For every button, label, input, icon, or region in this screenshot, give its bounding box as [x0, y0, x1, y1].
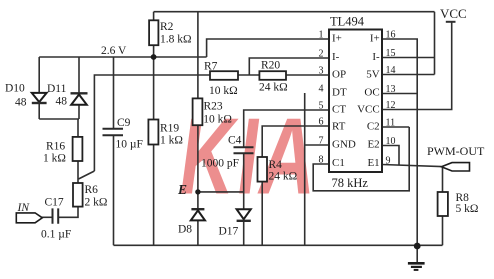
node 2.6V junction [151, 54, 157, 60]
svg-text:I: I [238, 96, 260, 218]
svg-text:R6: R6 [85, 184, 99, 196]
svg-text:10: 10 [386, 136, 396, 147]
capacitor C17 [53, 208, 59, 223]
svg-text:C17: C17 [45, 197, 64, 209]
wire pin2 feedback [249, 58, 329, 75]
wire R4 bottom [261, 182, 263, 246]
svg-text:6: 6 [319, 117, 324, 128]
svg-text:1 kΩ: 1 kΩ [43, 153, 66, 165]
svg-text:16: 16 [386, 30, 396, 41]
svg-text:48: 48 [15, 97, 27, 109]
diode D17 [237, 209, 251, 221]
diode D10 [32, 93, 47, 103]
svg-text:DT: DT [332, 87, 347, 99]
svg-text:14: 14 [386, 65, 396, 76]
ground symbol [416, 246, 418, 262]
resistor R20 [259, 71, 286, 80]
wire DT-GND ground drop [305, 93, 329, 245]
wire pin16,13 ground line [382, 39, 417, 246]
svg-text:1 kΩ: 1 kΩ [160, 135, 183, 147]
svg-text:0.1 µF: 0.1 µF [41, 229, 71, 241]
svg-text:R23: R23 [204, 101, 223, 113]
wire pin1 jog [207, 39, 329, 57]
wire pin10 to pin9 [382, 146, 399, 166]
wire C1-C2 tie [313, 127, 409, 191]
wire E branch R23-D8 [197, 12, 199, 246]
svg-text:RT: RT [332, 121, 346, 133]
svg-text:11: 11 [386, 118, 396, 129]
svg-text:PWM-OUT: PWM-OUT [427, 144, 485, 158]
svg-text:IN: IN [17, 202, 31, 214]
terminal IN arrow [16, 213, 42, 223]
resistor R8 [438, 192, 448, 216]
svg-text:TL494: TL494 [330, 15, 365, 29]
VCC terminal bar [446, 21, 456, 23]
wire pin3 line [94, 75, 329, 171]
svg-text:1: 1 [319, 30, 324, 41]
svg-text:1.8 kΩ: 1.8 kΩ [160, 34, 192, 46]
wire pin6 to R4 [262, 126, 329, 157]
svg-text:R2: R2 [160, 21, 174, 33]
svg-text:I-: I- [332, 51, 340, 63]
svg-text:E: E [177, 182, 187, 197]
svg-text:24 kΩ: 24 kΩ [259, 82, 288, 94]
wire diagonal to R16/R6 node [79, 171, 95, 179]
wire pin9 to PWM-OUT [382, 165, 442, 167]
svg-text:R7: R7 [204, 61, 218, 73]
wire D11 branch [39, 57, 79, 119]
svg-text:C1: C1 [332, 157, 345, 169]
svg-text:2 kΩ: 2 kΩ [85, 197, 108, 209]
wire VCC drop to pin12 [382, 22, 452, 110]
svg-text:E2: E2 [367, 139, 379, 151]
svg-text:1000 pF: 1000 pF [201, 158, 239, 170]
wire D10 branch [38, 57, 40, 119]
wire R19 branch [153, 57, 155, 245]
svg-text:10 kΩ: 10 kΩ [209, 85, 238, 97]
svg-text:OC: OC [364, 87, 379, 99]
node ground junction [414, 243, 421, 250]
svg-text:I+: I+ [332, 33, 342, 45]
svg-text:2: 2 [319, 49, 324, 60]
svg-text:2.6 V: 2.6 V [101, 45, 127, 57]
node E junction [195, 189, 200, 194]
svg-text:8: 8 [319, 155, 324, 166]
svg-text:24 kΩ: 24 kΩ [269, 171, 298, 183]
svg-text:10 µF: 10 µF [116, 139, 143, 151]
wire C4-D17 branch [243, 153, 245, 245]
svg-text:10 kΩ: 10 kΩ [203, 114, 232, 126]
svg-text:GND: GND [332, 139, 356, 151]
svg-text:C9: C9 [117, 117, 131, 129]
diode D11 [71, 93, 88, 105]
svg-text:15: 15 [386, 48, 396, 59]
resistor R7 [210, 71, 238, 80]
resistor R2 [149, 20, 158, 45]
wire 2.6V rail [39, 56, 206, 58]
IC U1 TL494 body [329, 30, 382, 173]
svg-text:R16: R16 [46, 141, 65, 153]
wire R16-R6 chain [59, 119, 79, 217]
wire pin5 to C4 [244, 110, 329, 147]
resistor R23 [193, 98, 203, 125]
watermark KIA [180, 96, 315, 218]
svg-text:5 kΩ: 5 kΩ [456, 203, 479, 215]
svg-text:D11: D11 [47, 83, 67, 95]
resistor R6 [73, 183, 83, 207]
wire C17 to IN [41, 216, 53, 218]
svg-text:E1: E1 [367, 157, 379, 169]
wire VREF top line [154, 11, 435, 13]
svg-text:R4: R4 [269, 159, 283, 171]
svg-text:D17: D17 [219, 226, 239, 238]
wire R2 leads [153, 12, 155, 57]
svg-text:OP: OP [332, 69, 346, 81]
svg-text:48: 48 [56, 96, 68, 108]
ground symbol bars [408, 263, 425, 270]
svg-text:9: 9 [386, 156, 391, 167]
capacitor C9 [103, 129, 124, 136]
svg-text:5V: 5V [366, 69, 380, 81]
resistor R4 [258, 157, 268, 182]
wire C9 branch [113, 57, 115, 245]
wire R8 branch [442, 167, 444, 246]
svg-text:D8: D8 [178, 224, 192, 236]
svg-text:7: 7 [319, 136, 324, 147]
svg-text:12: 12 [386, 100, 396, 111]
diode D8 [191, 209, 205, 220]
wire E node horizontal [198, 191, 244, 193]
svg-text:VCC: VCC [440, 6, 467, 21]
svg-text:C2: C2 [367, 121, 380, 133]
capacitor C4 [234, 147, 254, 153]
svg-text:R19: R19 [160, 123, 179, 135]
svg-text:5: 5 [319, 101, 324, 112]
svg-text:C4: C4 [228, 135, 242, 147]
svg-text:3: 3 [319, 66, 324, 77]
wire pins14-15 drop [382, 12, 435, 75]
svg-text:4: 4 [319, 84, 324, 95]
svg-text:13: 13 [386, 84, 396, 95]
resistor R19 [148, 120, 158, 145]
terminal PWM-OUT arrow [441, 163, 469, 171]
svg-text:78 kHz: 78 kHz [332, 176, 369, 190]
svg-text:R20: R20 [261, 60, 280, 72]
svg-text:VCC: VCC [357, 104, 380, 116]
svg-text:CT: CT [332, 104, 346, 116]
wire bottom ground rail [114, 244, 443, 246]
svg-text:I-: I- [372, 51, 380, 63]
resistor R16 [73, 137, 83, 161]
svg-text:D10: D10 [5, 83, 25, 95]
svg-text:I+: I+ [370, 33, 380, 45]
